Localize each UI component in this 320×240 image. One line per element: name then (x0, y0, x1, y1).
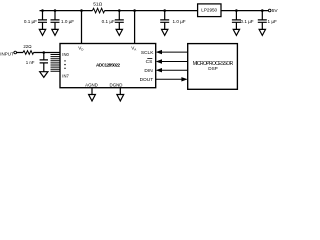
svg-text:ADC128S022: ADC128S022 (96, 63, 120, 68)
svg-text:1.0 µF: 1.0 µF (173, 19, 186, 24)
svg-text:LP2950: LP2950 (201, 7, 217, 12)
svg-text:AGND: AGND (85, 83, 98, 88)
svg-text:CS: CS (146, 59, 153, 65)
svg-text:0.1 µF: 0.1 µF (102, 19, 115, 24)
svg-text:DSP: DSP (208, 66, 217, 71)
svg-text:D: D (81, 47, 84, 51)
svg-text:IN7: IN7 (62, 74, 69, 79)
svg-text:IN0: IN0 (62, 52, 69, 57)
svg-text:22Ω: 22Ω (23, 44, 32, 49)
svg-text:SCLK: SCLK (141, 50, 154, 56)
svg-text:1 µF: 1 µF (268, 19, 277, 24)
svg-text:DGND: DGND (110, 83, 123, 88)
svg-text:INPUT: INPUT (0, 52, 14, 57)
svg-text:DIN: DIN (144, 68, 153, 74)
svg-text:5V: 5V (272, 8, 279, 14)
svg-text:1 nF: 1 nF (26, 60, 35, 65)
svg-text:1.0 µF: 1.0 µF (61, 19, 74, 24)
svg-text:0.1 µF: 0.1 µF (241, 19, 254, 24)
svg-text:51Ω: 51Ω (93, 1, 102, 7)
svg-text:0.1 µF: 0.1 µF (24, 19, 37, 24)
svg-text:DOUT: DOUT (140, 77, 154, 83)
svg-text:A: A (134, 47, 136, 51)
